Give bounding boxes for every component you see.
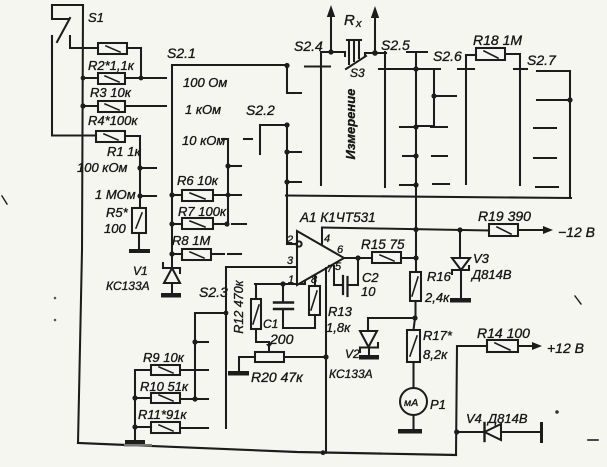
node pin2 column tap1 (284, 149, 289, 154)
svg-text:А1 К1ЧТ531: А1 К1ЧТ531 (299, 210, 376, 225)
svg-text:5: 5 (335, 261, 342, 273)
svg-text:R3 10к: R3 10к (90, 85, 132, 100)
wire feedback top line (286, 196, 571, 199)
wire main left column (78, 5, 83, 443)
wire S2.6 left column (417, 69, 434, 126)
node R8 left (169, 251, 174, 256)
speck left edge (2, 196, 7, 204)
node R20 right (323, 354, 328, 359)
wire S2.6 right column (465, 55, 467, 184)
resistor R15 (372, 252, 416, 263)
resistor R5 (132, 208, 146, 249)
wire S2.5 column (384, 52, 386, 187)
svg-text:S1: S1 (88, 10, 104, 25)
svg-text:R2*1,1к: R2*1,1к (88, 58, 135, 73)
diode V4 (457, 423, 541, 441)
svg-text:V4: V4 (466, 411, 482, 426)
speck dot right (555, 410, 559, 414)
svg-text:R18 1М: R18 1М (473, 32, 522, 48)
resistor R19 (489, 224, 546, 236)
svg-text:Измерение: Измерение (343, 89, 358, 160)
ground under V3 (450, 298, 471, 303)
wire S2.7 top tick (537, 70, 570, 72)
node S2.1 link (284, 63, 289, 68)
node S2.3 branch (224, 311, 229, 316)
pin 4 (321, 228, 323, 245)
zener V3 (452, 230, 470, 298)
svg-text:R: R (344, 12, 355, 29)
wire S2.6 dash2 (432, 155, 447, 157)
resistor R3 (83, 73, 166, 84)
wire pin2 column (286, 125, 288, 244)
speck right edge slash (575, 296, 581, 304)
node V3 tap (457, 227, 462, 232)
wire pin4 line (322, 228, 489, 231)
wire S2.2 contact dash (244, 138, 252, 140)
ground under V1 (161, 293, 181, 298)
wire middle column S2.5 select (415, 52, 417, 272)
meter P1 (400, 388, 427, 429)
svg-text:R19 390: R19 390 (478, 208, 531, 224)
ground under R5 (129, 249, 150, 253)
wire middle column top tick (407, 51, 427, 53)
svg-text:1 кОм: 1 кОм (185, 102, 221, 117)
node R15 right (413, 255, 418, 260)
svg-text:мА: мА (404, 397, 418, 409)
node middle column tap0 (413, 66, 418, 71)
node pin4 line crossing (413, 227, 418, 232)
speck bottom right dash (588, 439, 598, 441)
wire S2.3 column (225, 267, 227, 428)
op-amp U1 A1 (297, 231, 344, 285)
wire select stub (195, 341, 208, 343)
node R10 select (192, 396, 197, 401)
node select top (192, 339, 197, 344)
svg-text:100 кОм: 100 кОм (77, 160, 128, 175)
wire S2.7 dash3 (536, 186, 558, 188)
svg-text:R4*100к: R4*100к (88, 113, 138, 128)
resistor R2 (83, 43, 141, 54)
svg-text:8: 8 (311, 274, 318, 286)
svg-text:200: 200 (269, 331, 294, 347)
node middle column tap3 (413, 182, 418, 187)
wire pin3 to S2.3 (226, 266, 297, 268)
svg-text:R10 51к: R10 51к (140, 379, 189, 394)
arrow Rx right (371, 6, 379, 53)
wire S2.2 stub column (259, 125, 261, 154)
wire S2.7 select tick (537, 99, 570, 101)
resistor R16 (410, 272, 421, 318)
svg-text:R20 47к: R20 47к (251, 369, 304, 385)
speck dot 2 (54, 319, 57, 322)
resistor R10 (135, 393, 208, 403)
svg-text:2,4к: 2,4к (424, 290, 450, 305)
svg-text:7: 7 (327, 264, 333, 275)
pin 7 wire down (325, 268, 327, 453)
svg-text:С2: С2 (362, 270, 379, 285)
svg-text:−12 В: −12 В (558, 224, 595, 240)
resistor R6 (172, 190, 241, 201)
svg-text:S3: S3 (350, 66, 365, 80)
resistor R1 (96, 131, 140, 142)
svg-text:R15 75: R15 75 (361, 237, 405, 252)
node S2.2 left column tap (225, 163, 230, 168)
svg-text:R14 100: R14 100 (477, 325, 530, 341)
wire S2.1 column (171, 65, 173, 255)
wire S2.2 tap stub (228, 165, 241, 167)
svg-text:R11*91к: R11*91к (138, 407, 187, 422)
svg-text:2: 2 (286, 234, 293, 246)
speck dot 1 (54, 297, 57, 300)
resistor R4 (83, 101, 166, 112)
wire +12 rail (456, 346, 457, 455)
wire S3 to S2.5 (365, 52, 386, 54)
node R6 left (169, 192, 174, 197)
wire S2.4 tick (305, 65, 330, 67)
wire S2.7 right column (569, 71, 571, 198)
svg-text:8,2к: 8,2к (423, 347, 448, 362)
node R6 right on column (226, 193, 231, 198)
node R3 left (81, 76, 86, 81)
wire R2-R3 right link (140, 48, 142, 78)
wire bottom rail (78, 443, 456, 455)
node 1MOm tap (137, 193, 142, 198)
svg-text:Д814В: Д814В (486, 411, 528, 426)
svg-text:3: 3 (287, 255, 294, 267)
wire R10 select column (194, 313, 196, 400)
wire 1MOm contact stub (140, 195, 156, 197)
wire 10kOm stub (222, 138, 228, 140)
node V4 tap (454, 429, 459, 434)
zener V1 (163, 254, 180, 293)
svg-text:x: x (355, 18, 362, 30)
wire S2.7 left column (519, 54, 521, 185)
svg-text:R1 1к: R1 1к (107, 144, 141, 159)
svg-text:6: 6 (337, 244, 344, 256)
svg-text:V2: V2 (345, 347, 360, 361)
svg-text:10: 10 (361, 284, 376, 299)
svg-text:R6 10к: R6 10к (177, 173, 219, 188)
wire pin1 stub (304, 281, 306, 284)
node 100kOm tap (137, 165, 142, 170)
potentiometer R20 (239, 342, 326, 371)
resistor R12 (251, 284, 269, 342)
wire R9-R11 left column (134, 370, 136, 440)
node R7 right (224, 221, 229, 226)
wire R1 right column (139, 136, 141, 208)
svg-text:R9 10к: R9 10к (143, 350, 185, 365)
svg-text:+12 В: +12 В (547, 340, 584, 356)
svg-text:С1: С1 (263, 317, 278, 331)
arrow Rx left (327, 5, 335, 51)
svg-text:R16: R16 (427, 269, 452, 284)
svg-text:V3: V3 (473, 251, 490, 266)
resistor R9 (135, 365, 208, 375)
node middle column tap2 (413, 153, 418, 158)
svg-text:S2.5: S2.5 (381, 37, 410, 53)
svg-text:R12 470к: R12 470к (232, 279, 246, 333)
wire tap2 stub (287, 181, 301, 183)
capacitor C1 (274, 284, 315, 328)
ground under R9-R11 (125, 440, 145, 444)
node Rx left (328, 49, 333, 54)
node R11 left (132, 424, 137, 429)
node R4 left (80, 103, 85, 108)
svg-text:КС133А: КС133А (106, 279, 150, 293)
svg-text:V1: V1 (133, 264, 148, 278)
wire S2.4 column (320, 52, 322, 185)
resistor R8 (172, 249, 241, 260)
svg-text:1 МОм: 1 МОм (95, 187, 136, 202)
svg-text:S2.7: S2.7 (527, 52, 557, 68)
pin 5 (333, 266, 335, 285)
node pin1 (280, 281, 285, 286)
svg-text:R17*: R17* (423, 328, 453, 343)
resistor R11 (135, 422, 208, 433)
svg-text:S2.2: S2.2 (246, 102, 275, 118)
svg-text:R13: R13 (328, 304, 353, 319)
wire S2.7 dash2 (534, 157, 556, 159)
wire tap3 tick (400, 184, 416, 186)
svg-text:1,8к: 1,8к (326, 320, 351, 335)
wire V2 branch (368, 317, 415, 319)
pin 8 (314, 275, 316, 286)
node bottom rail junction (321, 450, 326, 455)
arrow -12V (543, 226, 553, 234)
pin 6 output wire (344, 257, 372, 259)
wire tap0 tick (401, 68, 440, 70)
capacitor C2 (334, 258, 358, 296)
wire S2.3 branch (195, 312, 226, 314)
node S2.7 select (567, 97, 572, 102)
svg-text:S2.3: S2.3 (199, 284, 228, 300)
svg-text:4: 4 (324, 233, 330, 245)
wire S2.1 top (172, 64, 287, 66)
svg-text:S2.1: S2.1 (167, 45, 196, 61)
pin 2 (287, 241, 302, 246)
wire tap2 tick (403, 155, 416, 157)
terminal bar V4 (540, 422, 543, 443)
wire S2.6 dash1 (431, 126, 447, 128)
wire S2.4 top to S3 (321, 51, 345, 53)
svg-text:R8 1М: R8 1М (172, 233, 210, 248)
switch S3 (345, 40, 366, 69)
svg-text:S2.4: S2.4 (294, 38, 323, 54)
node S2.6 select (431, 93, 436, 98)
node R10 left (132, 395, 137, 400)
wire S2.6 right tick (458, 68, 474, 70)
resistor R18 (466, 48, 520, 60)
svg-text:S2.6: S2.6 (433, 48, 462, 64)
arrow +12V (532, 342, 542, 350)
wire S2.6 dash3 (433, 183, 449, 185)
resistor R17 (407, 318, 420, 388)
node middle column tap1 (413, 124, 418, 129)
resistor R13 (309, 286, 320, 328)
node R7 left (169, 221, 174, 226)
node output (355, 255, 360, 260)
node R16 bottom (412, 315, 417, 320)
node pin2 column tap2 (284, 179, 289, 184)
resistor R7 (172, 218, 246, 229)
wire S2.6 select tick (434, 95, 456, 97)
svg-text:10 кОм: 10 кОм (182, 133, 225, 148)
svg-text:R5*: R5* (106, 205, 129, 220)
svg-text:Р1: Р1 (430, 397, 446, 412)
wire 100kOm contact stub (140, 167, 156, 169)
wire S2.2 left column (227, 139, 229, 224)
switch S1 (52, 5, 83, 60)
wire S2.2 top (260, 124, 287, 126)
wire S2.7 dash1 (534, 127, 556, 129)
resistor R14 (457, 340, 534, 352)
svg-text:1: 1 (288, 274, 294, 286)
svg-text:КС133А: КС133А (329, 367, 373, 381)
wire S2.5 tick (379, 68, 402, 70)
ground under P1 (398, 429, 422, 434)
node Rx right (372, 50, 378, 56)
wire pin1 node line (255, 283, 305, 285)
node pin2 column top (284, 122, 289, 127)
ground under R20 (228, 371, 249, 376)
svg-text:100 Ом: 100 Ом (183, 75, 227, 90)
svg-text:100: 100 (104, 221, 126, 236)
wire tap1 tick (400, 126, 416, 128)
svg-text:R7 100к: R7 100к (178, 204, 227, 219)
wire tap1 stub (287, 151, 301, 153)
node R3 right (139, 76, 144, 81)
zener V2 (360, 318, 378, 355)
wire S1 to R1 (52, 36, 96, 136)
speck smudge bottom (124, 444, 152, 447)
wire S2.1 to S2.4 contact (287, 66, 301, 93)
ground under V2 (359, 355, 379, 360)
svg-text:Д814В: Д814В (470, 267, 512, 282)
wire S2.7 left tick (514, 68, 527, 70)
